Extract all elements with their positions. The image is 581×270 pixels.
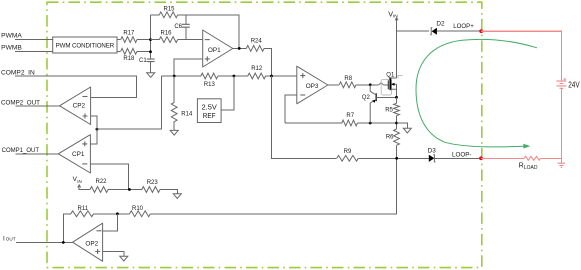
svg-text:C1: C1 — [139, 58, 147, 64]
svg-text:CP1: CP1 — [72, 151, 85, 158]
svg-text:COMP2_OUT: COMP2_OUT — [1, 99, 40, 106]
node junction — [238, 47, 241, 50]
node LOOP- terminal — [452, 152, 483, 161]
wire — [356, 83, 388, 85]
wire — [173, 76, 175, 130]
svg-text:R13: R13 — [204, 82, 216, 88]
node junction — [395, 96, 398, 99]
svg-text:R14: R14 — [181, 111, 193, 117]
wire — [397, 123, 408, 128]
resistor R7 — [342, 113, 358, 126]
diode D2 — [430, 21, 445, 35]
svg-text:R: R — [519, 163, 524, 170]
resistor R15 — [159, 6, 177, 17]
node junction — [128, 188, 131, 191]
svg-text:REF: REF — [203, 113, 216, 120]
wire — [162, 75, 201, 77]
wire — [233, 47, 247, 49]
svg-text:OP1: OP1 — [208, 47, 221, 54]
svg-text:PWM CONDITIONER: PWM CONDITIONER — [56, 43, 115, 50]
wire — [160, 190, 177, 194]
svg-text:IN: IN — [77, 179, 81, 184]
resistor R10 — [130, 206, 151, 217]
wire — [541, 157, 562, 159]
wire — [357, 122, 396, 124]
wire — [117, 50, 151, 52]
node junction — [173, 75, 176, 78]
wire — [97, 76, 162, 129]
wire — [91, 116, 97, 129]
wire — [221, 76, 234, 110]
svg-text:R23: R23 — [147, 180, 159, 186]
svg-text:I: I — [3, 235, 5, 242]
wire — [560, 88, 562, 163]
svg-text:R8: R8 — [344, 76, 352, 82]
wire — [328, 84, 339, 86]
2.5V reference block — [197, 99, 221, 123]
resistor R8 — [339, 76, 356, 88]
wire — [16, 241, 73, 243]
wire — [108, 189, 142, 191]
wire — [16, 105, 60, 107]
wire — [63, 214, 71, 243]
diode D3 — [428, 147, 437, 162]
svg-text:LOAD: LOAD — [524, 165, 538, 171]
transistor Q1 — [381, 72, 402, 95]
wire — [285, 95, 297, 123]
battery 24V — [556, 78, 580, 90]
wire — [264, 48, 271, 76]
svg-text:COMP1_OUT: COMP1_OUT — [2, 147, 40, 154]
wire — [90, 164, 128, 190]
wire — [151, 39, 203, 41]
wire — [94, 213, 130, 215]
wire — [174, 59, 203, 76]
svg-text:R24: R24 — [251, 38, 263, 44]
wire — [481, 31, 561, 81]
svg-text:D2: D2 — [436, 21, 445, 28]
wire — [435, 157, 482, 159]
node junction — [369, 122, 372, 125]
ground — [147, 73, 155, 78]
op-amp OP2 — [73, 223, 103, 261]
wire — [91, 96, 137, 98]
wire — [396, 31, 398, 78]
comparator CP1 — [58, 135, 90, 173]
boundary box (dash-dot green border) — [47, 2, 482, 267]
svg-text:R6: R6 — [386, 135, 394, 141]
wire — [416, 39, 537, 148]
svg-text:D3: D3 — [428, 147, 437, 154]
ground — [120, 256, 128, 261]
wire — [15, 50, 53, 52]
svg-text:R12: R12 — [251, 66, 263, 72]
node PWMA — [1, 33, 22, 40]
PWM conditioner block — [53, 37, 117, 53]
wire — [397, 30, 430, 32]
wire — [103, 252, 124, 257]
resistor R12 — [248, 66, 266, 79]
wire — [151, 15, 240, 49]
wire — [103, 214, 118, 231]
wire — [358, 157, 429, 159]
wire — [395, 18, 398, 32]
resistor R22 — [90, 179, 108, 192]
svg-text:OP2: OP2 — [85, 240, 98, 247]
node junction — [96, 128, 99, 131]
node junction — [270, 75, 273, 78]
wire — [16, 153, 59, 155]
node junction — [395, 157, 398, 160]
svg-text:R11: R11 — [78, 206, 89, 212]
resistor R6 — [386, 129, 400, 145]
node PWMB — [1, 44, 22, 51]
node junction — [395, 122, 398, 125]
wire — [272, 76, 337, 158]
node LOOP+ terminal — [453, 23, 483, 33]
node junction — [369, 83, 372, 86]
op-amp OP1 — [203, 30, 233, 67]
op-amp OP3 — [297, 66, 328, 104]
ground — [558, 163, 565, 167]
svg-text:OUT: OUT — [6, 237, 16, 242]
resistor R23 — [142, 180, 160, 193]
node COMP1_OUT — [2, 147, 40, 154]
wire — [185, 15, 187, 40]
wire — [15, 39, 53, 41]
resistor R11 — [71, 206, 94, 217]
node VIN — [388, 9, 398, 19]
svg-text:R9: R9 — [344, 149, 352, 155]
svg-text:24V: 24V — [568, 81, 580, 90]
svg-text:LOOP-: LOOP- — [452, 152, 472, 159]
svg-text:LOOP+: LOOP+ — [453, 23, 474, 30]
resistor R14 — [171, 102, 193, 121]
node COMP2_IN — [1, 70, 35, 77]
resistor R9 — [337, 149, 359, 161]
resistor R5 — [385, 103, 399, 115]
svg-text:R22: R22 — [95, 179, 107, 185]
wire — [396, 97, 398, 129]
resistor R13 — [201, 73, 218, 88]
resistor R16 — [159, 30, 177, 42]
svg-text:R7: R7 — [346, 113, 354, 119]
svg-text:C6: C6 — [174, 24, 182, 30]
wire — [15, 76, 136, 97]
node junction — [149, 38, 152, 41]
ground — [403, 128, 411, 133]
node COMP2_OUT — [1, 99, 40, 106]
svg-text:OP3: OP3 — [306, 83, 319, 90]
wire — [78, 185, 90, 190]
resistor RLOAD — [519, 156, 541, 171]
node junction — [116, 212, 119, 215]
node junction — [62, 241, 65, 244]
wire — [150, 62, 152, 73]
node IOUT — [3, 235, 16, 242]
svg-text:2.5V: 2.5V — [202, 105, 218, 112]
node junction — [149, 50, 152, 53]
svg-text:PWMA: PWMA — [1, 33, 22, 40]
svg-text:R16: R16 — [160, 30, 172, 36]
svg-text:CP2: CP2 — [73, 102, 86, 109]
wire — [481, 157, 524, 159]
resistor R17 — [121, 30, 137, 42]
wire — [90, 129, 97, 144]
wire — [396, 145, 398, 158]
resistor R18 — [121, 48, 137, 62]
svg-text:PWMB: PWMB — [1, 44, 22, 51]
ground — [173, 194, 181, 199]
capacitor C1 — [139, 58, 155, 64]
resistor R24 — [246, 38, 264, 51]
wire — [396, 84, 398, 97]
svg-text:R17: R17 — [123, 30, 135, 36]
wire — [437, 30, 481, 32]
wire — [150, 15, 152, 59]
transistor Q2 — [362, 85, 397, 123]
wire — [266, 75, 297, 77]
wire — [218, 75, 248, 77]
comparator CP2 — [60, 87, 91, 125]
node junction — [233, 75, 236, 78]
wire — [117, 39, 151, 41]
svg-text:R18: R18 — [123, 56, 135, 62]
wire — [150, 158, 396, 214]
node VIN — [73, 176, 82, 184]
svg-text:Q2: Q2 — [362, 95, 371, 101]
ground — [170, 130, 178, 135]
wire — [285, 122, 342, 124]
capacitor C6 — [174, 24, 189, 30]
